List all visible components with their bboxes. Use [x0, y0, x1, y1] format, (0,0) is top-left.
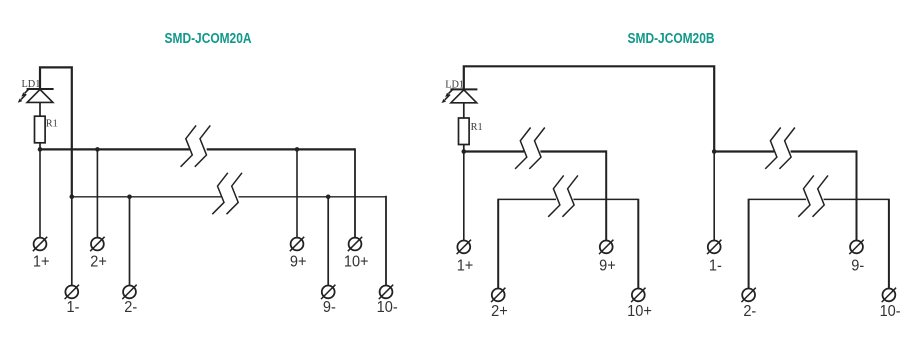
terminal B 9- — [849, 240, 863, 254]
wire bus1 B-right segment 2 — [791, 150, 857, 152]
break symbol B bus2 left — [548, 175, 578, 216]
svg-text:1+: 1+ — [457, 257, 474, 275]
svg-text:2-: 2- — [124, 299, 137, 317]
svg-text:LD1: LD1 — [445, 79, 464, 90]
wire bus2 B-left segment 1 — [498, 198, 556, 200]
LED LD1 (B) — [442, 89, 478, 104]
wire drop B 9+ — [605, 150, 607, 240]
wire drop B 9- — [856, 150, 858, 240]
svg-text:9+: 9+ — [599, 257, 616, 275]
svg-text:1-: 1- — [709, 257, 722, 275]
svg-text:10+: 10+ — [627, 303, 652, 321]
svg-text:9-: 9- — [323, 299, 336, 317]
terminal B 1+ — [457, 240, 471, 254]
terminal A 9- — [321, 285, 335, 299]
wire bus1 A right segment — [207, 148, 355, 150]
wire drop A 1- — [71, 197, 73, 286]
wire drop B 10+ — [637, 199, 639, 289]
junction dot B bus1 at R1 — [462, 149, 467, 154]
break symbol B bus1 right — [765, 128, 795, 169]
svg-text:1+: 1+ — [33, 253, 50, 271]
wire drop B 1- — [713, 152, 715, 241]
wire drop A 10+ — [354, 148, 356, 238]
junction dot A bus1 node 2+ — [95, 147, 100, 152]
wire top loop A — [40, 67, 72, 196]
wire drop A 9+ — [296, 149, 298, 237]
svg-text:2-: 2- — [743, 303, 756, 321]
wire drop A 2- — [129, 197, 131, 286]
wire top loop B — [464, 66, 714, 151]
wire drop A 10- — [385, 196, 387, 286]
break symbol A bus2 — [212, 173, 242, 214]
wire R1 to bus (A) — [39, 143, 41, 150]
terminal A 1+ — [33, 237, 47, 251]
wire bus2 B-right segment 2 — [824, 198, 889, 200]
svg-text:R1: R1 — [471, 122, 483, 133]
svg-text:SMD-JCOM20B: SMD-JCOM20B — [628, 30, 715, 46]
wire bus2 A left segment — [72, 196, 221, 198]
terminal B 9+ — [599, 240, 613, 254]
wire drop A 9- — [327, 197, 329, 286]
wire bus2 A right segment — [239, 196, 387, 198]
junction dot A bus2 node 1- — [70, 195, 75, 200]
svg-text:1-: 1- — [67, 299, 80, 317]
terminal A 10- — [379, 285, 393, 299]
wire bus1 B-left segment 2 — [540, 150, 606, 152]
svg-text:2+: 2+ — [90, 253, 107, 271]
terminal A 1- — [65, 285, 79, 299]
svg-text:SMD-JCOM20A: SMD-JCOM20A — [165, 30, 252, 46]
wire drop B 10- — [888, 199, 890, 289]
wire drop B 1+ — [463, 152, 465, 241]
terminal A 2+ — [90, 237, 104, 251]
svg-text:R1: R1 — [46, 119, 58, 130]
svg-text:10-: 10- — [880, 303, 901, 321]
junction dot A bus2 node 9- — [326, 195, 331, 200]
wire drop A 1+ — [39, 149, 41, 237]
svg-text:2+: 2+ — [491, 303, 508, 321]
wire bus2 B-right segment 1 — [749, 198, 807, 200]
wire diode to R1 (A) — [39, 103, 41, 117]
wire drop B 2- — [748, 199, 750, 289]
wire bus1 B-left segment 1 — [464, 150, 524, 152]
break symbol B bus1 left — [515, 128, 545, 169]
wire drop B 2+ — [497, 199, 499, 289]
junction dot A bus1 node 9+ — [295, 147, 300, 152]
svg-text:9+: 9+ — [290, 253, 307, 271]
terminal B 10- — [882, 288, 896, 302]
terminal B 1- — [707, 240, 721, 254]
wire bus1 B-right segment 1 — [714, 150, 774, 152]
svg-text:10+: 10+ — [344, 253, 369, 271]
terminal A 9+ — [290, 237, 304, 251]
junction dot A bus1 at R1 — [38, 147, 43, 152]
wire drop A 2+ — [96, 149, 98, 237]
wire R1 to bus (B) — [463, 145, 465, 152]
wire bus2 B-left segment 2 — [573, 198, 638, 200]
svg-text:LD1: LD1 — [22, 79, 41, 90]
terminal B 2+ — [491, 288, 505, 302]
resistor R1 (A) — [35, 116, 46, 143]
wire bus1 A left segment — [40, 148, 190, 150]
break symbol A bus1 — [181, 125, 211, 166]
wire diode to R1 (B) — [463, 103, 465, 118]
terminal A 2- — [122, 285, 136, 299]
svg-text:10-: 10- — [377, 299, 398, 317]
junction dot A bus2 node 2- — [127, 195, 132, 200]
break symbol B bus2 right — [798, 175, 828, 216]
resistor R1 (B) — [459, 118, 470, 145]
junction dot B top loop to bus1 right — [712, 149, 717, 154]
terminal B 10+ — [631, 288, 645, 302]
terminal B 2- — [741, 288, 755, 302]
LED LD1 (A) — [18, 88, 54, 103]
terminal A 10+ — [348, 237, 362, 251]
svg-text:9-: 9- — [851, 257, 864, 275]
